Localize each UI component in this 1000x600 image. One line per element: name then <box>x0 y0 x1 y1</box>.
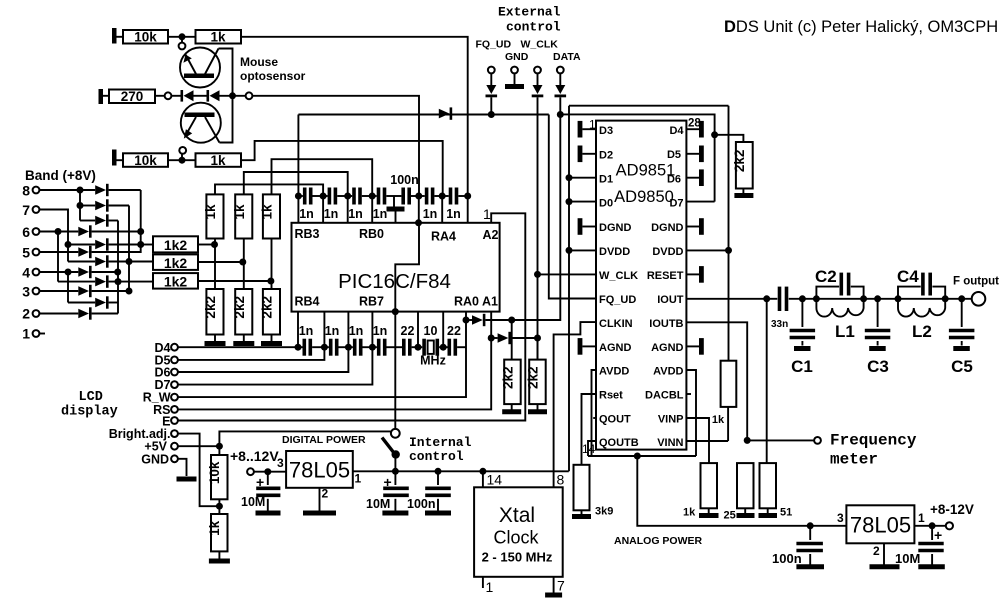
diode row 302.5 <box>68 302 95 304</box>
diode FQ_UD (down) <box>486 85 496 94</box>
wire FQ_UD drop to pin <box>549 115 596 299</box>
inductor L2 <box>898 299 945 317</box>
svg-text:1k: 1k <box>712 414 725 426</box>
svg-text:5: 5 <box>22 245 30 261</box>
resistor 1k (top) <box>196 30 242 44</box>
svg-text:1k: 1k <box>207 520 222 536</box>
crystal 10MHz <box>418 346 422 348</box>
svg-text:display: display <box>61 405 118 420</box>
node A1 <box>488 335 495 342</box>
riser band6 <box>57 232 59 282</box>
resistor 2k2 (W_CLK pulldown) <box>537 338 539 360</box>
wire: Q1/Q2 common right side <box>219 49 233 143</box>
wire <box>254 471 286 473</box>
resistor 2k2 (D7 pullup) <box>711 131 718 138</box>
ground 2k2 W_CLK <box>528 409 547 414</box>
svg-text:2k2: 2k2 <box>525 366 540 389</box>
LED diode D-led1 (pointing left) <box>181 90 184 102</box>
wire: internal control long line from PIC divider <box>394 312 396 429</box>
wire W_CLK line <box>511 337 538 339</box>
svg-text:10k: 10k <box>207 461 222 484</box>
ground GND terminal <box>177 477 197 482</box>
node RA0 <box>463 317 470 324</box>
resistor 1k (DVDD-VINN) <box>721 361 737 407</box>
wire W_CLK to pin <box>538 273 597 275</box>
svg-text:W_CLK: W_CLK <box>521 39 559 51</box>
wire FQ_UD horizontal net <box>298 114 548 116</box>
svg-text:FQ_UD: FQ_UD <box>476 39 512 51</box>
diode row8 <box>95 185 106 195</box>
wire IOUT sample down <box>766 299 768 464</box>
wire: bus to RB1 cap (staircase A) <box>215 184 323 196</box>
sensor pin circle top <box>181 37 183 43</box>
wire <box>218 446 220 455</box>
node L1 right <box>860 295 867 302</box>
svg-text:D0: D0 <box>599 198 613 210</box>
terminal Frequency meter <box>814 437 821 444</box>
capacitor 1n t3 <box>348 195 353 197</box>
svg-text:1n: 1n <box>299 324 314 338</box>
svg-text:control: control <box>409 449 464 464</box>
ground 78L05 analog pin2 <box>883 543 885 564</box>
svg-text:2: 2 <box>873 544 880 558</box>
node RB3 cap <box>295 193 302 200</box>
Xtal Clock box <box>474 487 563 577</box>
svg-text:W_CLK: W_CLK <box>599 270 638 282</box>
svg-text:C4: C4 <box>897 267 919 286</box>
wire to terminal <box>747 439 814 441</box>
wire DATA to D7 <box>560 114 714 201</box>
svg-text:1k: 1k <box>683 507 696 519</box>
svg-text:33n: 33n <box>771 319 788 330</box>
svg-text:Internal: Internal <box>409 435 472 450</box>
svg-text:2: 2 <box>22 306 30 322</box>
svg-text:IOUTB: IOUTB <box>649 318 683 330</box>
svg-text:RB4: RB4 <box>295 295 320 309</box>
diode row 220.5 <box>80 220 95 222</box>
resistor 25 (IOUTB load) <box>737 463 754 508</box>
terminal F output <box>972 292 986 306</box>
svg-text:D5: D5 <box>667 149 681 161</box>
svg-text:control: control <box>506 20 561 35</box>
resistor 10k (bottom) <box>123 153 168 167</box>
svg-text:RB7: RB7 <box>359 295 384 309</box>
svg-text:1: 1 <box>486 579 494 595</box>
ground 25 <box>737 513 755 518</box>
wire +5V <box>178 445 219 447</box>
svg-text:2: 2 <box>322 487 329 501</box>
resistor 1k col1 <box>206 194 223 238</box>
wire <box>816 298 898 300</box>
wire <box>198 261 242 263</box>
svg-text:8: 8 <box>22 183 30 199</box>
svg-text:6: 6 <box>22 224 30 240</box>
capacitor 1n t4 <box>372 195 377 197</box>
svg-text:8: 8 <box>557 472 565 488</box>
capacitor C5 (shunt) <box>961 299 963 327</box>
resistor 2k2 col2 <box>235 289 252 335</box>
svg-text:D4: D4 <box>669 125 684 137</box>
pin 1 <box>482 577 484 588</box>
capacitor 100n analog <box>807 522 814 529</box>
resistor 1k (divider) <box>211 514 228 551</box>
svg-text:+8-12V: +8-12V <box>930 502 974 517</box>
svg-text:Band (+8V): Band (+8V) <box>25 168 96 183</box>
wire row4 <box>40 271 79 273</box>
capacitor C1 (shunt) <box>801 299 803 327</box>
svg-text:D2: D2 <box>599 150 613 162</box>
svg-text:100n: 100n <box>407 497 436 511</box>
node L1 left <box>813 295 820 302</box>
terminal DATA <box>557 67 564 74</box>
resistor 1k2 (top) <box>153 236 198 252</box>
resistor 1k col2 <box>235 194 252 238</box>
wire 78L05 out rail <box>353 470 569 472</box>
node D6 <box>345 344 352 351</box>
svg-text:51: 51 <box>780 507 792 519</box>
DVDD bus top <box>569 105 729 107</box>
svg-text:+8..12V: +8..12V <box>230 448 279 464</box>
svg-text:1k: 1k <box>260 204 275 220</box>
phototransistor Q1 (top) <box>180 48 220 88</box>
svg-text:10k: 10k <box>134 30 157 45</box>
terminal GND <box>511 67 518 74</box>
resistor 2k2 col3 <box>263 289 280 335</box>
node L2 left <box>895 295 902 302</box>
svg-text:DGND: DGND <box>651 222 683 234</box>
capacitor 1n t5 <box>419 195 425 197</box>
resistor 10k (top) <box>123 30 168 44</box>
terminal +8..12V input <box>247 468 254 475</box>
svg-text:1n: 1n <box>299 207 314 221</box>
svg-text:10M: 10M <box>895 551 920 566</box>
DVDD bus left <box>568 106 570 472</box>
svg-text:meter: meter <box>830 451 878 469</box>
svg-text:RB0: RB0 <box>359 227 384 241</box>
wire D5 <box>178 347 324 360</box>
node on PIC top edge <box>415 219 422 226</box>
capacitor 100n <box>401 188 405 205</box>
svg-text:1n: 1n <box>325 324 340 338</box>
regulator 78L05 analog <box>846 505 914 543</box>
svg-text:10M: 10M <box>366 497 390 511</box>
wire: bottom phototransistor output to RA pin riser <box>241 141 443 196</box>
pin risers from cap row down to PIC top <box>297 196 299 223</box>
svg-text:25: 25 <box>724 510 736 522</box>
regulator 78L05 digital <box>286 451 353 488</box>
wire <box>168 36 196 38</box>
svg-text:3: 3 <box>277 456 284 470</box>
resistor 1k col3 <box>263 194 280 238</box>
svg-text:RA0 A1: RA0 A1 <box>454 295 498 309</box>
wire <box>898 298 975 300</box>
resistor 1k2 (bottom) <box>153 273 198 289</box>
node C3 <box>874 295 881 302</box>
svg-text:2k2: 2k2 <box>500 366 515 389</box>
svg-text:Mouse: Mouse <box>240 55 278 69</box>
power stub bar middle <box>99 89 104 104</box>
node freq meter <box>744 437 751 444</box>
connector pin circle <box>246 92 253 99</box>
svg-text:10M: 10M <box>241 495 265 509</box>
bus column x129 <box>128 206 130 292</box>
svg-text:L1: L1 <box>835 322 855 341</box>
svg-text:2k2: 2k2 <box>232 296 247 319</box>
node <box>179 157 186 164</box>
svg-text:1n: 1n <box>324 207 339 221</box>
capacitor 1n b3 <box>348 346 353 348</box>
wire + node <box>218 499 220 514</box>
svg-text:F output: F output <box>953 276 999 288</box>
pin 7 <box>553 577 555 593</box>
svg-text:1n: 1n <box>349 324 364 338</box>
svg-text:7: 7 <box>22 202 30 218</box>
svg-text:3: 3 <box>837 511 844 525</box>
wire row2 <box>40 313 79 315</box>
ground ext <box>505 84 524 89</box>
wire row7 <box>40 210 69 262</box>
riser band4 <box>67 272 69 303</box>
ground pin7 <box>545 593 562 598</box>
AD9851 inner box <box>596 121 686 450</box>
capacitor C4 (parallel) <box>898 287 921 299</box>
diode row3 <box>78 286 89 296</box>
wire: top phototransistor output to RA pin riser <box>241 37 468 196</box>
wire <box>198 244 214 246</box>
svg-text:100n: 100n <box>772 551 802 566</box>
wire Bright.adj <box>178 434 219 507</box>
svg-text:RESET: RESET <box>647 270 684 282</box>
wire <box>198 280 271 282</box>
terminal FQ_UD <box>488 67 495 74</box>
svg-text:ANALOG POWER: ANALOG POWER <box>614 535 702 547</box>
ground 3k9 <box>572 514 591 519</box>
node DATA junction <box>557 111 564 118</box>
svg-text:AVDD: AVDD <box>599 366 629 378</box>
capacitor 1n b2 <box>324 346 329 348</box>
svg-text:CLKIN: CLKIN <box>599 318 633 330</box>
wire row3 <box>40 290 79 292</box>
ground col2 <box>243 335 245 342</box>
diode row5 <box>78 247 89 257</box>
diode row4 <box>78 267 89 277</box>
svg-text:GND: GND <box>505 51 529 63</box>
svg-text:2k2: 2k2 <box>203 296 218 319</box>
resistor 2k2 col1 <box>206 289 223 335</box>
svg-text:AD9850: AD9850 <box>614 188 674 206</box>
node on PIC bottom edge <box>392 308 399 315</box>
svg-text:D7: D7 <box>669 198 683 210</box>
switch Internal control <box>391 429 400 438</box>
svg-text:AGND: AGND <box>651 342 683 354</box>
node RA cap6 <box>439 193 446 200</box>
svg-text:1k2: 1k2 <box>164 237 188 253</box>
DVDD bus right <box>728 106 730 361</box>
terminal W_CLK <box>534 67 541 74</box>
svg-text:100n: 100n <box>390 173 419 187</box>
svg-text:4: 4 <box>22 265 30 281</box>
diode row 281.6 <box>58 281 95 283</box>
svg-text:A2: A2 <box>483 228 499 242</box>
svg-text:1k: 1k <box>210 153 226 168</box>
sensor pin circle bottom <box>179 147 186 154</box>
inductor L1 <box>816 299 863 317</box>
diode row 205.5 <box>80 205 95 207</box>
svg-text:1k: 1k <box>232 204 247 220</box>
riser band8 <box>79 190 81 221</box>
svg-text:+5V: +5V <box>144 440 167 454</box>
diode W_CLK (down) <box>533 85 543 94</box>
svg-text:DATA: DATA <box>553 51 581 63</box>
svg-text:+: + <box>934 527 942 543</box>
PIC internal divider <box>395 223 419 312</box>
node D4 <box>295 344 302 351</box>
wire D6 <box>178 347 348 372</box>
node D7 <box>369 344 376 351</box>
capacitor C2 (parallel) <box>816 287 839 299</box>
svg-text:22: 22 <box>401 324 415 338</box>
ground 2k2 DATA <box>502 409 521 414</box>
ground col3 <box>271 335 273 342</box>
pin stubs PIC bottom <box>297 312 299 348</box>
wire <box>220 95 246 97</box>
node IOUT tap <box>763 295 770 302</box>
svg-text:1n: 1n <box>373 324 388 338</box>
node RA cap7 <box>464 193 471 200</box>
AVDD rail <box>588 455 696 457</box>
svg-text:DVDD: DVDD <box>652 246 683 258</box>
svg-text:2k2: 2k2 <box>732 150 747 173</box>
svg-text:DGND: DGND <box>599 222 631 234</box>
svg-text:1: 1 <box>355 472 362 486</box>
svg-text:14: 14 <box>487 472 503 488</box>
diode DATA (down) <box>555 85 565 94</box>
node xtal2 <box>440 344 447 351</box>
wire col2 mid <box>243 239 245 290</box>
capacitor 100n digital <box>435 468 442 475</box>
svg-text:GND: GND <box>141 453 169 467</box>
wire: staircase C to RB0 cap <box>272 159 373 196</box>
resistor 10k (divider) <box>211 455 228 499</box>
svg-text:C2: C2 <box>815 267 837 286</box>
svg-text:RB3: RB3 <box>295 227 320 241</box>
wire row6 <box>40 231 79 233</box>
resistor 51 (IOUT load) <box>760 463 777 508</box>
svg-text:MHz: MHz <box>420 354 446 368</box>
wire DATA line to riser <box>485 115 560 321</box>
svg-text:7: 7 <box>557 578 565 594</box>
svg-text:1k: 1k <box>203 204 218 220</box>
svg-text:2 - 150 MHz: 2 - 150 MHz <box>482 550 553 565</box>
capacitor 33n (series) <box>767 298 778 300</box>
capacitor C3 (shunt) <box>877 299 879 327</box>
wire RB3 riser to FQ_UD diode line <box>297 115 299 197</box>
svg-text:1: 1 <box>483 206 491 222</box>
diode row6 <box>78 227 89 237</box>
node xtal1 <box>415 344 422 351</box>
svg-text:10: 10 <box>424 324 438 338</box>
svg-text:FQ_UD: FQ_UD <box>599 294 636 306</box>
diode row 244.5 <box>68 244 95 246</box>
resistor 2k2 (DATA pulldown) <box>511 320 513 360</box>
capacitor 10M input electrolytic <box>267 472 269 485</box>
svg-text:Xtal: Xtal <box>499 504 535 527</box>
capacitor 1n b4 <box>372 346 377 348</box>
node C1 <box>799 295 806 302</box>
svg-text:DIGITAL POWER: DIGITAL POWER <box>282 434 366 446</box>
ground 78L05 digital pin2 <box>319 488 321 511</box>
capacitor 10M analog (electrolytic) <box>931 526 933 540</box>
wire <box>194 95 208 97</box>
svg-text:LCD: LCD <box>79 390 103 405</box>
diode A1 (W_CLK) <box>498 333 509 343</box>
svg-text:1k2: 1k2 <box>164 255 188 271</box>
svg-text:10k: 10k <box>134 153 157 168</box>
terminal +8-12V <box>946 522 953 529</box>
capacitor 1n t2 <box>323 195 328 197</box>
node RA4 cap <box>415 193 422 200</box>
wire D7 <box>178 347 372 384</box>
ground of cap rail (under 100n) <box>393 196 395 207</box>
svg-text:3: 3 <box>22 284 30 300</box>
diode RB3->FQ_UD <box>439 109 450 119</box>
svg-text:DVDD: DVDD <box>599 246 630 258</box>
svg-text:22: 22 <box>447 324 461 338</box>
wire to analog power rail <box>637 456 846 526</box>
ground 1k FM <box>699 513 719 518</box>
bus column x140.7 <box>137 228 144 235</box>
resistor 1k (bottom) <box>196 153 242 167</box>
svg-text:1n: 1n <box>423 207 438 221</box>
svg-text:External: External <box>498 5 561 20</box>
power stub bar top <box>112 28 117 44</box>
svg-text:Rset: Rset <box>599 390 623 402</box>
svg-text:D3: D3 <box>599 125 613 137</box>
wire W_CLK vertical <box>537 97 539 359</box>
capacitor 22p right <box>443 346 447 348</box>
node C5 <box>958 295 965 302</box>
svg-text:IOUT: IOUT <box>657 294 684 306</box>
capacitor 1n b1 <box>298 346 303 348</box>
svg-text:VINN: VINN <box>657 437 683 449</box>
svg-text:L2: L2 <box>912 322 932 341</box>
wire <box>491 337 497 339</box>
ground 51 <box>759 513 778 518</box>
capacitor 10M digital (electrolytic) <box>394 471 396 485</box>
capacitor 1n t6 <box>442 195 449 197</box>
node D5 <box>321 344 328 351</box>
svg-text:C3: C3 <box>867 357 889 376</box>
svg-text:Clock: Clock <box>493 528 539 548</box>
svg-text:QOUT: QOUT <box>599 414 631 426</box>
svg-text:1n: 1n <box>348 207 363 221</box>
node L2 right <box>942 295 949 302</box>
node: optosensor common <box>229 92 236 99</box>
wire col3 mid <box>271 239 273 290</box>
wire GND <box>178 459 187 476</box>
svg-text:C5: C5 <box>951 357 973 376</box>
node RB cap2 <box>320 193 327 200</box>
wire: middle sensor line to RA4 riser <box>253 96 420 196</box>
svg-text:RA4: RA4 <box>431 230 456 244</box>
pin 14 <box>482 471 484 487</box>
resistor 1k2 (middle) <box>153 254 198 270</box>
node RB cap3 <box>344 193 351 200</box>
svg-text:DACBL: DACBL <box>645 390 684 402</box>
ground divider <box>218 551 220 558</box>
wire <box>172 95 182 97</box>
svg-text:1n: 1n <box>446 207 461 221</box>
